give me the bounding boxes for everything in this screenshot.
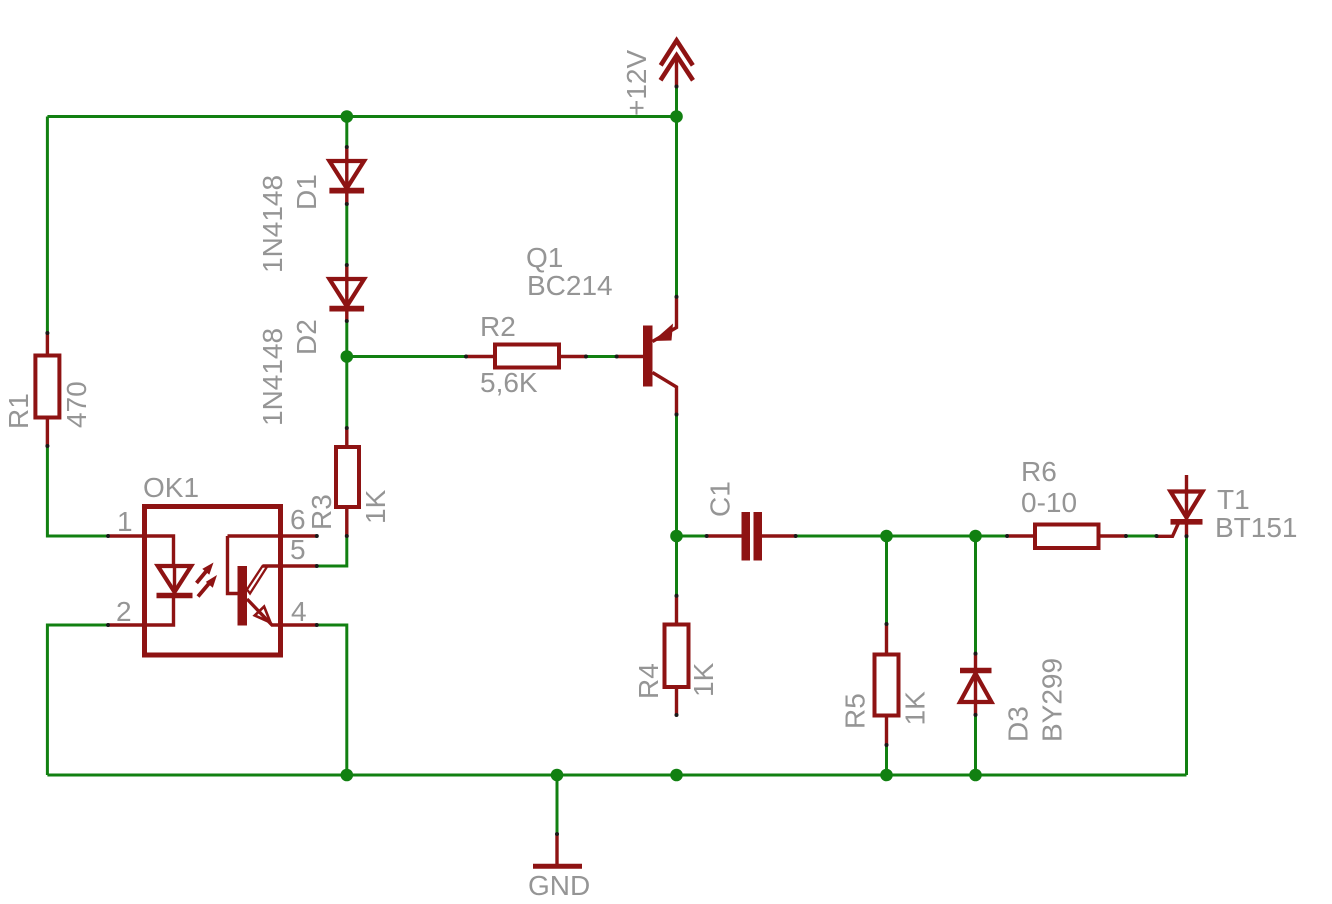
svg-text:R3: R3 [306,494,337,530]
wire OK1 pin 2 down to ground rail [47,625,108,775]
svg-text:D3: D3 [1003,706,1034,742]
svg-text:C1: C1 [705,481,736,517]
svg-text:4: 4 [291,596,307,627]
svg-text:1N4148: 1N4148 [257,175,288,273]
wire ground rail to GND symbol [556,775,559,834]
svg-text:OK1: OK1 [143,472,199,503]
svg-text:2: 2 [116,596,132,627]
wire D2 bottom to node [345,321,348,357]
svg-text:0-10: 0-10 [1021,487,1077,518]
junction node D3 top [969,530,982,543]
svg-text:R6: R6 [1021,456,1057,487]
svg-text:R2: R2 [480,311,516,342]
wire D3 top [974,536,977,654]
OK1 pin 1 [108,534,146,537]
wire R1 bottom to OK1 pin 1 [47,446,108,536]
capacitor C1 [707,512,796,561]
junction node D2 / R2 / R3 [341,350,354,363]
junction node C1 left [670,530,683,543]
wire R5 top [885,536,888,624]
diode D2 [329,265,364,321]
OK1 light arrow lower [198,575,217,597]
OK1 phototransistor emitter [247,599,317,625]
svg-text:BT151: BT151 [1215,512,1298,543]
OK1 pin 2 [108,623,146,626]
wire between D1 and D2 [345,204,348,265]
OK1 internal LED [146,536,193,625]
ground symbol GND [533,834,582,866]
junction node ground rail at OK1 [341,769,354,782]
wire R6 right to T1 gate [1126,535,1157,538]
resistor R6 [1007,525,1126,549]
svg-text:T1: T1 [1217,484,1250,515]
svg-text:1K: 1K [688,662,719,697]
svg-text:1K: 1K [360,489,391,524]
wire C1 node to C1 left plate [677,535,707,538]
OK1 pin 6 (base) [228,534,317,537]
transistor Q1 [617,297,677,415]
wire OK1 pin 4 down to ground rail [317,625,347,775]
svg-text:BC214: BC214 [527,270,613,301]
resistor R4 [665,596,689,715]
wire R5 bottom to ground rail [885,745,888,775]
resistor R3 [336,428,359,536]
wire Q1 collector down to C1 node [675,415,678,537]
optocoupler OK1 box [145,507,281,656]
svg-text:470: 470 [61,381,92,428]
wire top rail +12V net [47,115,676,118]
resistor R1 [35,333,59,446]
svg-text:1N4148: 1N4148 [257,328,288,426]
wire bottom ground rail [47,774,1186,777]
junction node top rail at +12V [670,110,683,123]
junction node R5 top [880,530,893,543]
svg-text:D2: D2 [291,319,322,355]
diode D1 [329,147,364,204]
wire R3 bottom to OK1 pin 5 [317,536,347,566]
wire D3 bottom to ground rail [974,715,977,775]
wire C1 right plate to R6 [796,535,1007,538]
OK1 phototransistor collector [247,566,317,594]
resistor R5 [875,624,899,745]
wire +12V symbol stub [675,87,678,117]
power +12V symbol [661,41,694,87]
wire left vertical from top rail to R1 [46,117,49,334]
wire Q1 emitter up to +12V rail [675,117,678,297]
svg-text:1: 1 [117,506,133,537]
OK1 phototransistor base bar [228,536,248,626]
junction node ground rail at R5 [880,769,893,782]
wire node to R2 left [347,355,466,358]
svg-text:R5: R5 [840,693,871,729]
wire node to R3 top [345,357,348,429]
thyristor T1 [1157,475,1203,536]
diode D3 [960,654,992,715]
wire C1 node down to R4 top [675,536,678,596]
junction node ground rail at D3 [969,769,982,782]
OK1 light arrow upper [197,563,214,584]
junction node ground rail at GND [551,769,564,782]
svg-text:5: 5 [290,534,306,565]
svg-text:6: 6 [290,504,306,535]
svg-text:BY299: BY299 [1037,658,1068,742]
svg-text:Q1: Q1 [526,242,563,273]
svg-text:GND: GND [528,870,590,901]
pin end dots [45,85,1188,837]
resistor R2 [466,345,586,368]
svg-text:+12V: +12V [621,50,652,116]
junction node ground rail at R4 [670,769,683,782]
svg-text:1K: 1K [900,691,931,726]
svg-text:D1: D1 [291,174,322,210]
wire T1 cathode down and to ground rail [1185,536,1188,775]
svg-text:5,6K: 5,6K [480,367,538,398]
svg-text:R4: R4 [633,663,664,699]
junction node on top rail at D1 [341,110,354,123]
wire R2 right to Q1 base [586,355,617,358]
wire D1 top lead to rail [345,117,348,148]
svg-text:R1: R1 [3,393,34,429]
